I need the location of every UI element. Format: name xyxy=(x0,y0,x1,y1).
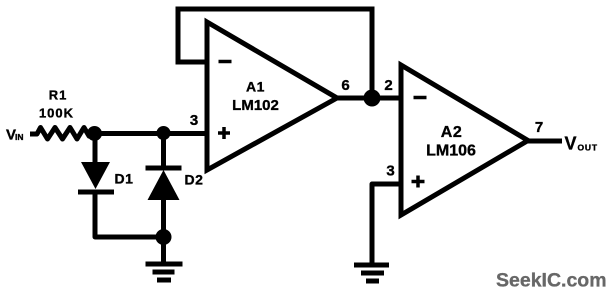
ground left xyxy=(146,264,183,280)
resistor R1 xyxy=(37,128,94,140)
op-amp A1 xyxy=(207,22,337,170)
wire node to D2 xyxy=(161,133,166,168)
wire A2 output xyxy=(528,139,562,144)
node bottom junction dot xyxy=(156,229,172,245)
svg-text:V: V xyxy=(565,134,577,154)
wire feedback top xyxy=(178,7,372,12)
diode D1 xyxy=(78,162,114,192)
wire D2 anode to bottom node xyxy=(161,200,166,237)
wire D1 cathode down and right to bottom node xyxy=(95,192,164,237)
svg-text:SeekIC.com: SeekIC.com xyxy=(496,270,607,292)
svg-text:7: 7 xyxy=(535,119,543,136)
svg-text:R1: R1 xyxy=(49,88,68,103)
wire input node to A1 plus input xyxy=(94,131,206,136)
svg-text:LM106: LM106 xyxy=(426,143,476,160)
svg-text:6: 6 xyxy=(341,77,349,94)
op-amp A2 xyxy=(401,65,528,215)
wire bottom node to ground xyxy=(161,237,166,263)
svg-text:D2: D2 xyxy=(185,172,204,188)
svg-text:LM102: LM102 xyxy=(232,97,279,114)
wire VIN lead xyxy=(30,132,37,137)
label VIN xyxy=(6,127,24,144)
svg-text:A2: A2 xyxy=(441,124,462,141)
svg-text:A1: A1 xyxy=(246,79,265,95)
label VOUT xyxy=(565,134,598,154)
wire A2 plus input to ground xyxy=(372,184,401,264)
svg-text:2: 2 xyxy=(384,77,392,94)
node input junction dot xyxy=(87,126,102,141)
node B junction dot xyxy=(364,90,381,107)
svg-text:3: 3 xyxy=(386,163,394,180)
wire A1 output to A2 inverting input xyxy=(337,96,401,101)
wire node to D1 xyxy=(93,134,98,164)
ground right xyxy=(354,265,389,281)
svg-text:3: 3 xyxy=(190,112,198,129)
wire feedback right drop to node B xyxy=(370,9,375,98)
svg-text:100K: 100K xyxy=(39,106,74,121)
node D2 top junction dot xyxy=(157,126,171,140)
svg-text:OUT: OUT xyxy=(578,143,598,153)
svg-text:D1: D1 xyxy=(115,171,134,187)
svg-text:IN: IN xyxy=(15,132,24,142)
wire feedback left drop to A1 inverting input xyxy=(178,9,206,62)
diode D2 xyxy=(146,168,182,200)
